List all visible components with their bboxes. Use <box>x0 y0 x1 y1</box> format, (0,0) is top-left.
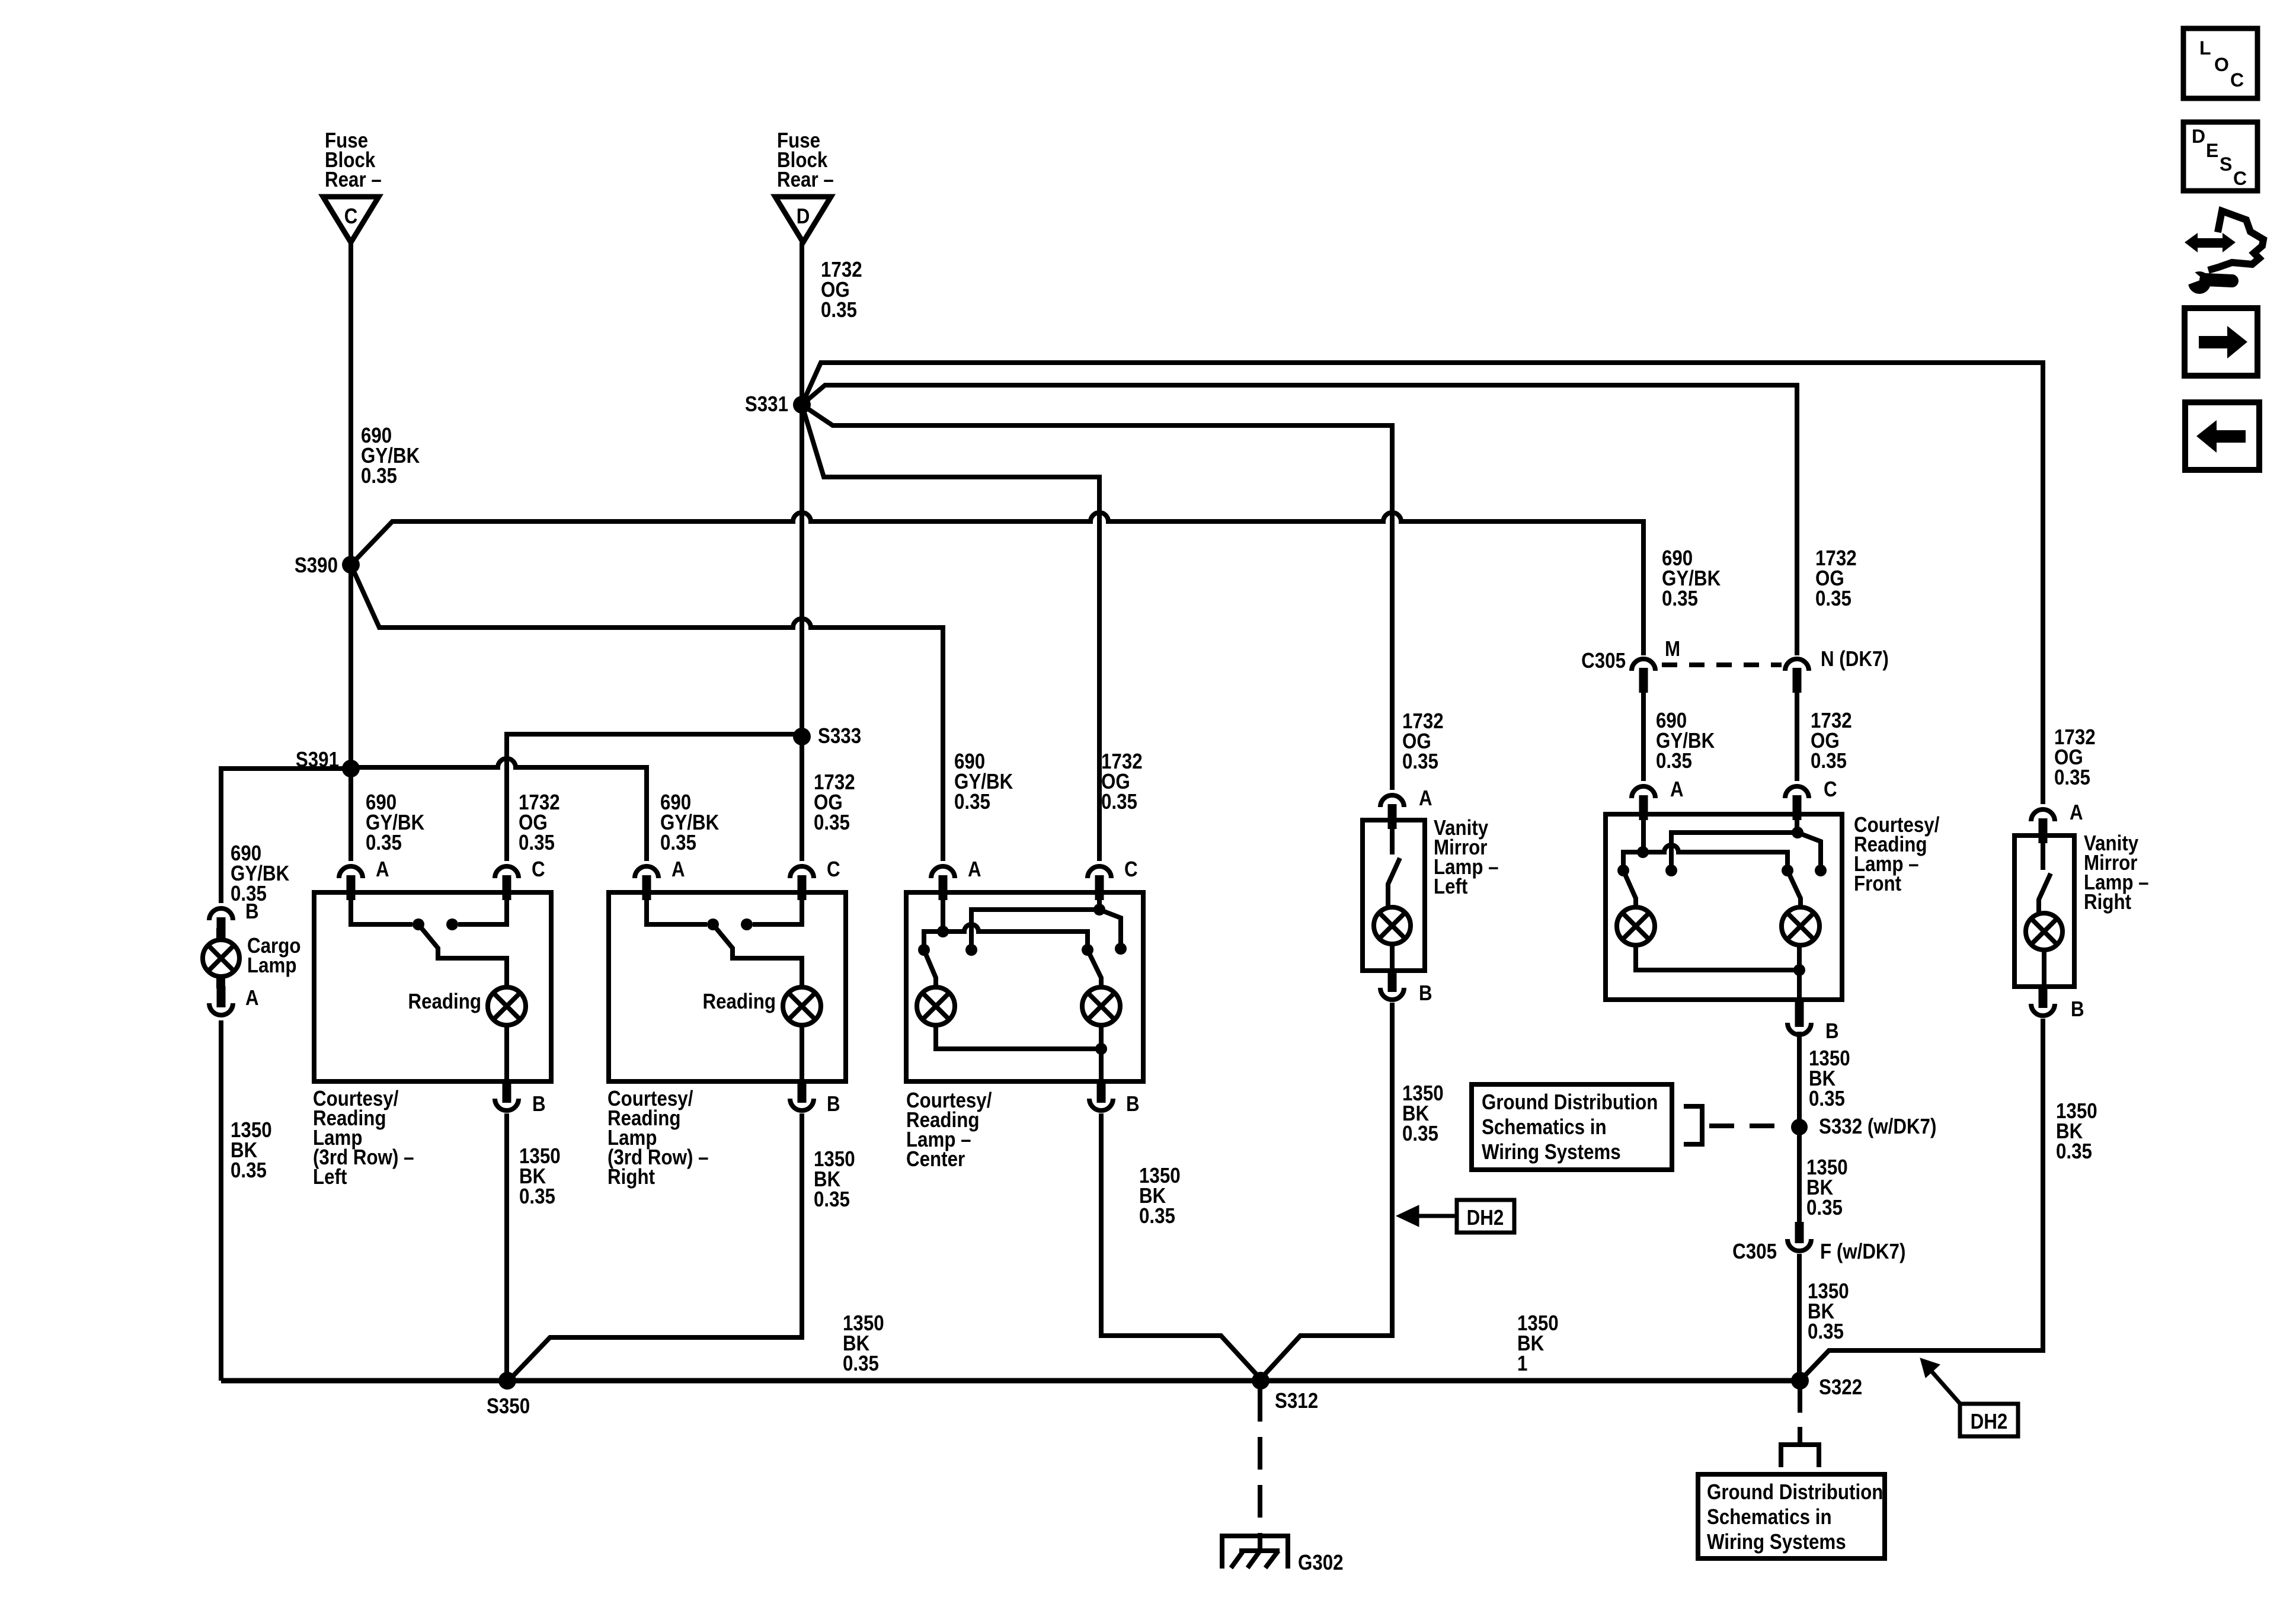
svg-text:C: C <box>532 857 545 881</box>
dashed wire S312 to ground G302 <box>1258 1389 1262 1536</box>
svg-text:0.35: 0.35 <box>1806 1195 1843 1219</box>
svg-text:0.35: 0.35 <box>843 1351 879 1375</box>
svg-text:Front: Front <box>1854 871 1901 895</box>
courtesy reading lamp 3rd row left - pin B connector <box>495 1081 519 1110</box>
svg-text:0.35: 0.35 <box>1656 748 1692 773</box>
reference box Ground Distribution Schematics (left) <box>1472 1084 1672 1170</box>
svg-text:M: M <box>1665 636 1680 661</box>
fuse block rear connector C (triangle) <box>323 197 379 242</box>
svg-text:0.35: 0.35 <box>1402 749 1438 773</box>
svg-text:0.35: 0.35 <box>366 830 402 854</box>
wire 690 GY/BK C305 M to front lamp pin A <box>1641 693 1646 781</box>
svg-text:Schematics in: Schematics in <box>1482 1115 1607 1139</box>
courtesy reading lamp front - pin C connector <box>1785 786 1809 820</box>
courtesy reading lamp 3rd row right - pin C connector <box>790 866 814 900</box>
svg-text:Reading: Reading <box>703 989 776 1013</box>
svg-text:B: B <box>245 899 259 923</box>
courtesy reading lamp 3rd row left - switch wiring <box>351 898 412 924</box>
node S350 <box>498 1372 516 1390</box>
wire 1732 OG from fuse D to S331 <box>800 242 804 405</box>
wire 1732 OG S331 branch 1 to vanity right lamp pin A <box>802 363 2043 804</box>
svg-text:S312: S312 <box>1275 1388 1318 1413</box>
sidebar icon diagnostic (double arrow, outline, wrench) <box>2182 211 2263 294</box>
courtesy reading lamp front - pin C internal wiring <box>1795 820 1799 833</box>
dashed connector line C305 M-N <box>1662 662 1782 667</box>
svg-text:Wiring Systems: Wiring Systems <box>1707 1529 1846 1554</box>
svg-text:Right: Right <box>607 1164 655 1189</box>
svg-text:A: A <box>671 857 685 881</box>
svg-text:B: B <box>532 1092 546 1116</box>
wire 690 GY/BK S391 left branch to cargo lamp <box>221 769 351 903</box>
vanity mirror lamp left - bulb <box>1374 907 1411 944</box>
cargo lamp connector pin B <box>209 908 233 942</box>
node S332 (w/DK7) <box>1791 1119 1808 1135</box>
courtesy reading lamp center - pin B connector <box>1089 1081 1113 1110</box>
svg-text:G302: G302 <box>1298 1550 1344 1574</box>
courtesy reading lamp 3rd row right - switch wiring <box>647 898 707 924</box>
courtesy reading lamp front - housing box <box>1606 814 1842 1000</box>
callout DH2 (right, points to vanity right ground wire) <box>1960 1404 2018 1436</box>
svg-text:0.35: 0.35 <box>519 1184 555 1208</box>
svg-text:S333: S333 <box>818 724 861 748</box>
svg-text:DH2: DH2 <box>1971 1409 2008 1433</box>
vanity mirror lamp right - housing box <box>2014 836 2074 987</box>
wire 690 GY/BK from fuse C down through S390 S391 to lamp pin A <box>348 242 353 861</box>
svg-text:C: C <box>1824 777 1837 801</box>
svg-text:0.35: 0.35 <box>1402 1121 1438 1145</box>
svg-text:B: B <box>1825 1019 1839 1043</box>
svg-text:0.35: 0.35 <box>660 830 696 854</box>
wire 1350 BK right lamp ground to S350 <box>509 1113 802 1381</box>
svg-text:0.35: 0.35 <box>1809 1086 1845 1110</box>
node S390 <box>342 556 360 574</box>
courtesy reading lamp front - pin B connector <box>1787 1000 1811 1035</box>
courtesy reading lamp 3rd row left - pin A connector <box>339 866 363 900</box>
svg-text:1: 1 <box>1517 1351 1527 1375</box>
wire 1732 OG S331 down to S333 and right lamp pin C <box>800 405 804 861</box>
wire 1350 BK ground bus <box>221 1378 1800 1384</box>
svg-text:0.35: 0.35 <box>814 1187 850 1211</box>
dashed wire S322 to bracket <box>1798 1389 1802 1445</box>
svg-text:Ground Distribution: Ground Distribution <box>1707 1480 1883 1504</box>
svg-text:S332 (w/DK7): S332 (w/DK7) <box>1819 1114 1936 1138</box>
svg-text:B: B <box>1419 981 1432 1005</box>
svg-text:Ground Distribution: Ground Distribution <box>1482 1090 1658 1114</box>
svg-text:0.35: 0.35 <box>1662 586 1698 610</box>
svg-text:0.35: 0.35 <box>2056 1139 2092 1163</box>
courtesy reading lamp center - switch contacts <box>918 944 930 956</box>
wire 1732 OG S331 branch 4 to center lamp pin C <box>802 405 1099 861</box>
wire 1732 OG S331 branch 3 to vanity left lamp pin A <box>802 405 1392 790</box>
node S331 <box>793 396 811 414</box>
courtesy reading lamp 3rd row left - housing box <box>314 892 551 1081</box>
wire 1350 BK front lamp ground to S332 <box>1797 1032 1802 1222</box>
svg-text:F (w/DK7): F (w/DK7) <box>1820 1239 1905 1263</box>
cargo lamp connector pin A <box>209 986 233 1015</box>
svg-text:L: L <box>2199 37 2211 59</box>
courtesy reading lamp 3rd row right - pin A connector <box>635 866 658 900</box>
wire 1350 BK left lamp ground to S350 <box>504 1113 509 1381</box>
svg-text:A: A <box>376 857 389 881</box>
courtesy reading lamp center - pin A connector <box>931 866 955 900</box>
svg-text:0.35: 0.35 <box>1101 789 1137 814</box>
wire 1350 BK vanity right ground to S322 <box>1800 1019 2043 1381</box>
svg-text:Lamp: Lamp <box>247 953 297 977</box>
svg-text:S350: S350 <box>487 1394 530 1418</box>
courtesy reading lamp center - housing box <box>906 892 1143 1081</box>
courtesy reading lamp front - pin A internal wiring <box>1641 820 1646 852</box>
vanity mirror lamp left - housing box <box>1363 820 1425 971</box>
svg-text:S322: S322 <box>1819 1375 1862 1399</box>
courtesy reading lamp front - pin A connector <box>1632 786 1655 820</box>
courtesy reading lamp center - junction to pin B <box>1095 1043 1107 1055</box>
svg-text:C: C <box>827 857 840 881</box>
connector C305 pin M <box>1632 659 1655 693</box>
svg-text:A: A <box>968 857 981 881</box>
svg-text:S390: S390 <box>295 553 338 577</box>
sidebar icon forward arrow box <box>2185 308 2257 376</box>
courtesy reading lamp center - right switch blade and bulb <box>1088 950 1101 987</box>
courtesy reading lamp front - left switch blade and bulb <box>1623 870 1636 907</box>
wire 1732 OG S333 left branch to left lamp pin C <box>507 734 802 861</box>
svg-text:0.35: 0.35 <box>1139 1204 1175 1228</box>
courtesy reading lamp center - pin A internal wiring <box>941 898 945 932</box>
svg-text:Rear –: Rear – <box>777 167 834 191</box>
svg-text:Reading: Reading <box>408 989 482 1013</box>
sidebar icon LOC box <box>2183 28 2257 98</box>
svg-text:0.35: 0.35 <box>361 463 397 488</box>
svg-text:0.35: 0.35 <box>821 297 857 322</box>
node S333 <box>793 728 811 745</box>
connector C305 pin F <box>1787 1222 1811 1251</box>
courtesy reading lamp 3rd row left - bulb to pin B wire <box>504 1025 509 1081</box>
node S391 <box>342 760 360 777</box>
svg-text:C305: C305 <box>1732 1239 1777 1263</box>
vanity mirror lamp right - bulb <box>2026 913 2062 950</box>
svg-text:0.35: 0.35 <box>519 830 555 854</box>
wire 690 GY/BK S390 lower branch to center lamp pin A <box>351 565 943 861</box>
svg-text:D: D <box>2192 126 2205 147</box>
svg-text:Rear –: Rear – <box>325 167 382 191</box>
svg-text:0.35: 0.35 <box>1808 1319 1844 1343</box>
svg-text:C: C <box>1124 857 1138 881</box>
courtesy reading lamp 3rd row left - pin C connector <box>495 866 519 900</box>
svg-text:B: B <box>2071 997 2084 1021</box>
wire 1350 BK center lamp ground to S312 <box>1101 1113 1261 1379</box>
svg-text:0.35: 0.35 <box>1815 586 1851 610</box>
callout DH2 (left, points to vanity left ground wire) <box>1457 1200 1514 1233</box>
svg-text:O: O <box>2214 54 2229 75</box>
node S312 <box>1252 1372 1269 1390</box>
svg-text:C: C <box>344 204 358 228</box>
svg-text:Left: Left <box>313 1164 347 1189</box>
wire 1350 BK cargo lamp ground to bus <box>219 1020 223 1381</box>
svg-text:0.35: 0.35 <box>2054 765 2090 789</box>
courtesy reading lamp front - junction to pin B <box>1793 964 1805 976</box>
courtesy reading lamp center - pin C connector <box>1088 866 1111 900</box>
svg-text:D: D <box>797 204 810 228</box>
vanity mirror lamp left - switch blade <box>1390 827 1395 854</box>
connector C305 pin N <box>1785 659 1809 693</box>
reference box Ground Distribution Schematics (right) <box>1698 1474 1885 1558</box>
svg-text:0.35: 0.35 <box>231 1158 267 1182</box>
bracket above right reference box <box>1781 1445 1819 1467</box>
sidebar icon DESC box <box>2183 122 2257 191</box>
svg-text:0.35: 0.35 <box>1811 748 1847 773</box>
svg-text:0.35: 0.35 <box>814 810 850 834</box>
courtesy reading lamp 3rd row right - switch contacts and blade <box>707 918 719 930</box>
courtesy reading lamp front - right switch blade and bulb <box>1787 870 1801 907</box>
wire 1732 OG C305 N to front lamp pin C <box>1795 693 1799 781</box>
svg-text:0.35: 0.35 <box>954 789 990 814</box>
ground symbol G302 <box>1222 1536 1288 1569</box>
courtesy reading lamp 3rd row right - bulb to pin B wire <box>800 1025 804 1081</box>
vanity mirror lamp left - pin B connector <box>1380 971 1404 1000</box>
vanity mirror lamp right - pin B connector <box>2031 987 2055 1016</box>
svg-text:B: B <box>827 1092 840 1116</box>
node S322 <box>1791 1372 1809 1390</box>
wire 1350 BK vanity left ground to S312 <box>1261 1003 1392 1379</box>
courtesy reading lamp center - left switch blade and bulb <box>924 950 936 987</box>
courtesy reading lamp 3rd row left - switch contacts and blade <box>412 918 424 930</box>
cargo lamp bulb <box>216 928 225 942</box>
fuse block rear connector D (triangle) <box>775 197 831 242</box>
svg-text:C305: C305 <box>1581 648 1626 673</box>
courtesy reading lamp 3rd row right - housing box <box>609 892 846 1081</box>
svg-text:C: C <box>2230 69 2244 91</box>
svg-text:Left: Left <box>1434 874 1467 898</box>
svg-text:Center: Center <box>906 1147 965 1171</box>
svg-text:A: A <box>1419 786 1432 810</box>
svg-text:A: A <box>245 985 259 1010</box>
svg-text:A: A <box>1670 777 1684 801</box>
svg-text:DH2: DH2 <box>1467 1205 1504 1230</box>
svg-text:Schematics in: Schematics in <box>1707 1505 1832 1529</box>
svg-text:Wiring Systems: Wiring Systems <box>1482 1140 1621 1164</box>
wire 1350 BK C305 F to S322 <box>1797 1254 1802 1381</box>
svg-text:S331: S331 <box>745 392 788 416</box>
wire 690 GY/BK S390 upper branch to C305 M <box>351 513 1643 655</box>
wire 1732 OG S331 branch 2 to C305 N <box>802 385 1797 655</box>
wire 690 GY/BK S391 right branch to 3rd row right lamp pin A <box>351 758 647 861</box>
bracket from reference box to S332 <box>1684 1106 1702 1144</box>
svg-text:Right: Right <box>2084 889 2131 914</box>
courtesy reading lamp center - pin C internal wiring <box>1097 898 1102 910</box>
svg-text:S: S <box>2220 153 2232 175</box>
sidebar icon back arrow box <box>2185 402 2259 470</box>
svg-text:B: B <box>1126 1092 1140 1116</box>
svg-text:N (DK7): N (DK7) <box>1821 646 1889 671</box>
courtesy reading lamp 3rd row right - pin B connector <box>790 1081 814 1110</box>
svg-text:A: A <box>2070 800 2083 824</box>
courtesy reading lamp front - switch contacts <box>1617 865 1629 876</box>
dashed wire bracket to S332 <box>1709 1124 1786 1128</box>
svg-text:E: E <box>2206 140 2218 161</box>
vanity mirror lamp left - pin A connector <box>1380 795 1404 829</box>
vanity mirror lamp right - switch blade <box>2041 841 2045 870</box>
vanity mirror lamp right - pin A connector <box>2031 809 2055 843</box>
svg-text:C: C <box>2233 168 2247 189</box>
